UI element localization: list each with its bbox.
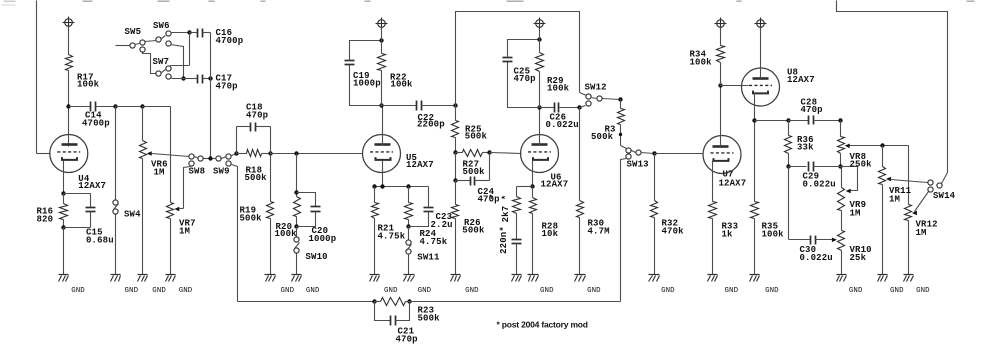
svg-text:GND: GND [418,287,432,295]
svg-text:100k: 100k [275,229,298,239]
svg-text:12AX7: 12AX7 [787,75,815,85]
svg-text:10k: 10k [542,229,559,239]
svg-text:1000p: 1000p [353,78,381,88]
svg-text:GND: GND [179,287,193,295]
svg-text:470k: 470k [662,226,685,236]
svg-text:GND: GND [890,287,904,295]
svg-text:GND: GND [916,287,930,295]
svg-text:470p: 470p [801,105,823,115]
svg-text:4.75k: 4.75k [420,237,448,247]
svg-text:500k: 500k [418,314,441,324]
svg-text:12AX7: 12AX7 [719,178,747,188]
svg-text:500k: 500k [245,173,268,183]
svg-text:2k7 *: 2k7 * [501,195,511,223]
svg-text:0.68u: 0.68u [86,235,114,245]
svg-text:470p: 470p [216,82,238,92]
svg-text:470p: 470p [246,111,268,121]
svg-text:0.022u: 0.022u [803,179,836,189]
svg-text:500k: 500k [465,132,488,142]
svg-text:*: * [488,194,494,204]
svg-text:GND: GND [849,287,863,295]
svg-text:GND: GND [465,287,479,295]
svg-text:820: 820 [37,215,54,225]
svg-text:SW14: SW14 [933,191,956,201]
svg-text:1M: 1M [179,227,190,237]
svg-text:0.022u: 0.022u [800,253,833,263]
svg-text:GND: GND [152,287,166,295]
svg-text:GND: GND [661,287,675,295]
svg-text:GND: GND [384,287,398,295]
svg-text:1M: 1M [850,208,861,218]
svg-text:1M: 1M [889,194,900,204]
svg-text:SW7: SW7 [153,57,170,67]
svg-text:33k: 33k [797,142,814,152]
svg-text:470p: 470p [514,74,536,84]
svg-text:* post 2004 factory mod: * post 2004 factory mod [497,320,588,330]
svg-text:100k: 100k [547,84,570,94]
svg-text:SW10: SW10 [306,252,328,262]
svg-text:GND: GND [725,287,739,295]
svg-text:SW5: SW5 [125,27,142,37]
svg-text:470p: 470p [396,334,418,344]
svg-text:SW9: SW9 [213,166,230,176]
svg-text:GND: GND [765,287,779,295]
svg-text:1000p: 1000p [309,234,337,244]
svg-text:4700p: 4700p [216,36,244,46]
svg-text:12AX7: 12AX7 [78,181,106,191]
svg-text:12AX7: 12AX7 [406,160,434,170]
svg-text:GND: GND [587,287,601,295]
svg-text:GND: GND [540,287,554,295]
svg-text:500k: 500k [240,213,263,223]
svg-text:220n*: 220n* [499,226,509,254]
svg-text:GND: GND [71,287,85,295]
svg-text:SW8: SW8 [189,166,206,176]
svg-text:SW6: SW6 [153,21,170,31]
svg-text:25k: 25k [850,253,867,263]
svg-text:SW11: SW11 [417,253,440,263]
svg-text:2200p: 2200p [417,120,445,130]
svg-text:100k: 100k [77,80,100,90]
svg-text:12AX7: 12AX7 [541,180,569,190]
svg-text:1M: 1M [154,168,165,178]
svg-text:500k: 500k [462,226,485,236]
svg-text:4.75k: 4.75k [378,231,406,241]
svg-text:GND: GND [306,287,320,295]
svg-text:100k: 100k [690,57,713,67]
svg-text:2.2u: 2.2u [431,220,453,230]
svg-text:GND: GND [125,287,139,295]
svg-text:SW12: SW12 [585,83,607,93]
svg-text:4.7M: 4.7M [588,226,610,236]
svg-text:100k: 100k [762,229,785,239]
svg-text:0.022u: 0.022u [546,120,579,130]
svg-text:1k: 1k [722,229,734,239]
svg-text:100k: 100k [390,80,413,90]
svg-text:GND: GND [281,287,295,295]
svg-text:SW13: SW13 [627,159,649,169]
svg-text:500k: 500k [463,167,486,177]
svg-text:250k: 250k [850,160,873,170]
svg-text:4700p: 4700p [82,119,110,129]
svg-text:1M: 1M [916,228,927,238]
svg-text:500k: 500k [591,132,614,142]
svg-text:SW4: SW4 [124,210,141,220]
